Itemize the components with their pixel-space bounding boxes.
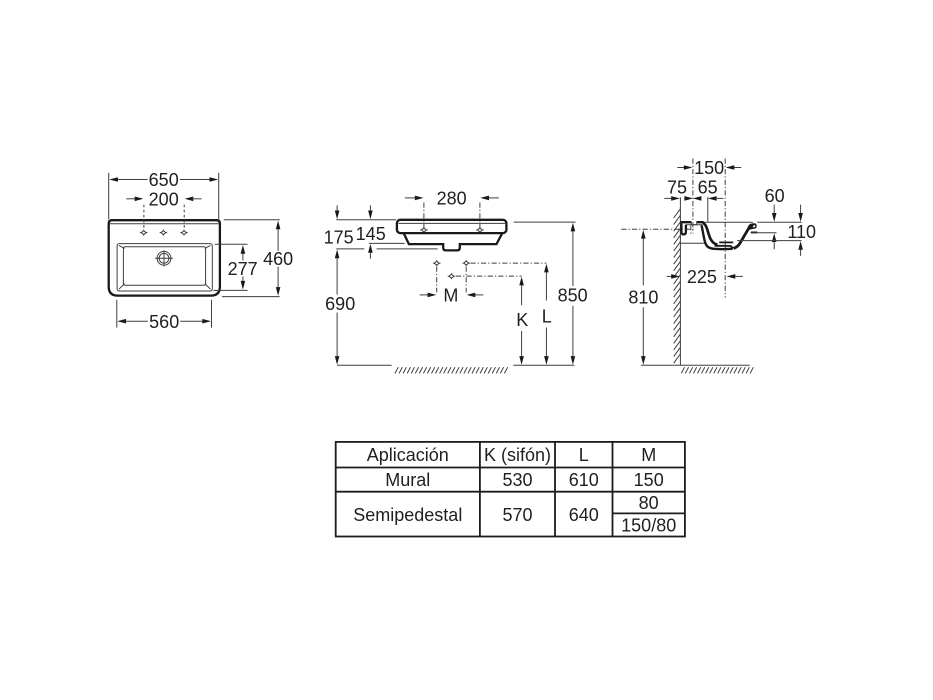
floor line left of hatch — [337, 364, 392, 366]
110 reference line bottom — [737, 240, 802, 242]
front faucet hole left — [422, 228, 427, 232]
basin outer wall and bottom — [702, 225, 733, 249]
svg-text:150/80: 150/80 — [621, 516, 676, 536]
svg-text:150: 150 — [634, 470, 664, 490]
svg-text:Aplicación: Aplicación — [367, 445, 449, 465]
svg-text:80: 80 — [639, 493, 659, 513]
dimension L — [542, 264, 552, 365]
floor line right segment — [513, 364, 574, 366]
svg-text:850: 850 — [558, 285, 588, 305]
axis line faucet hole side view — [692, 159, 694, 234]
axis lines to M dimension — [436, 267, 438, 293]
side rim top edge — [680, 221, 703, 223]
mounting hole axis line — [621, 228, 693, 230]
siphon position hole left — [434, 261, 439, 265]
svg-text:810: 810 — [628, 288, 658, 308]
axis line drain side view — [724, 159, 726, 298]
svg-text:640: 640 — [569, 505, 599, 525]
svg-text:60: 60 — [765, 186, 785, 206]
basin top-view outer outline — [109, 220, 220, 295]
faucet hole notch — [691, 221, 696, 224]
wall face line — [679, 197, 681, 365]
front view rim — [397, 220, 507, 233]
basin right wall diagonal — [734, 225, 752, 249]
dimension 810 — [628, 230, 658, 365]
svg-text:M: M — [443, 286, 458, 306]
dimension 65 — [684, 177, 723, 221]
faucet hole right — [182, 231, 187, 235]
svg-text:530: 530 — [502, 470, 532, 490]
svg-text:560: 560 — [149, 312, 179, 332]
dimension 150 — [677, 158, 741, 178]
lip inner white — [753, 225, 756, 227]
basin interior left wall — [703, 223, 718, 245]
svg-text:200: 200 — [149, 189, 179, 209]
dimension 75 — [664, 177, 687, 200]
svg-text:570: 570 — [502, 505, 532, 525]
faucet hole center — [161, 231, 166, 235]
svg-text:280: 280 — [437, 189, 467, 209]
front faucet hole right — [478, 228, 483, 232]
mounting hole cross — [690, 225, 692, 234]
basin top back edge — [703, 221, 753, 223]
svg-text:Mural: Mural — [385, 470, 430, 490]
svg-text:L: L — [579, 445, 589, 465]
dimension 850 — [558, 223, 588, 365]
lip front edge bar — [751, 232, 758, 234]
dimension 460 — [222, 220, 293, 297]
basin underside back line — [680, 242, 706, 244]
svg-text:65: 65 — [698, 177, 718, 197]
dimension 110 — [787, 205, 816, 256]
basin interior bottom line — [715, 246, 734, 248]
svg-text:460: 460 — [263, 249, 293, 269]
svg-text:L: L — [542, 307, 552, 327]
wall bracket — [681, 223, 686, 234]
axis line to K dimension — [456, 275, 522, 277]
svg-text:610: 610 — [569, 470, 599, 490]
dimension M — [420, 286, 484, 306]
floor hatch right view — [681, 367, 753, 373]
dimension 60 — [765, 186, 785, 249]
floor hatch middle view — [395, 367, 508, 373]
axis line to L dimension — [470, 262, 546, 264]
bowl corner bevels — [119, 245, 211, 289]
inner bowl outer edge — [117, 244, 212, 291]
front rim lip — [748, 223, 756, 230]
dimension 200 — [126, 189, 201, 229]
svg-text:277: 277 — [228, 259, 258, 279]
dimension 690 — [325, 250, 355, 365]
810 floor extension line — [641, 364, 680, 366]
dimension 175 — [324, 205, 397, 247]
dimension 280 — [405, 189, 499, 229]
rim underside line — [686, 224, 702, 226]
inner bowl inner edge — [123, 247, 205, 286]
dimension K — [516, 277, 528, 365]
svg-text:225: 225 — [687, 267, 717, 287]
svg-text:M: M — [641, 445, 656, 465]
svg-text:650: 650 — [149, 170, 179, 190]
svg-text:75: 75 — [667, 177, 687, 197]
drain symbol — [155, 250, 173, 266]
svg-text:K (sifón): K (sifón) — [484, 445, 551, 465]
60 reference line bottom — [752, 232, 777, 234]
dimension 277 — [213, 244, 257, 290]
dimension 650 — [109, 170, 219, 219]
reference line under drain — [336, 248, 364, 250]
svg-text:K: K — [516, 310, 528, 330]
dimension 225 — [667, 267, 743, 287]
svg-text:150: 150 — [694, 158, 724, 178]
siphon position hole middle — [449, 274, 454, 278]
wall hatch — [674, 209, 681, 363]
floor line right view — [680, 364, 749, 366]
svg-text:110: 110 — [787, 222, 816, 242]
table grid — [336, 442, 685, 537]
faucet hole left — [141, 231, 146, 235]
basin top-view inner rim line — [110, 223, 219, 225]
svg-text:145: 145 — [356, 224, 386, 244]
60 reference line top — [757, 221, 801, 223]
drain flange line — [719, 241, 733, 243]
siphon position hole right — [464, 261, 469, 265]
front view body and drain box — [404, 234, 502, 251]
svg-text:175: 175 — [324, 227, 354, 247]
svg-text:Semipedestal: Semipedestal — [353, 505, 462, 525]
front rim inner line — [398, 222, 505, 224]
rim top extension to 850 — [514, 221, 576, 223]
dimension 145 — [356, 205, 405, 258]
svg-text:690: 690 — [325, 294, 355, 314]
dimension 560 — [117, 300, 212, 332]
